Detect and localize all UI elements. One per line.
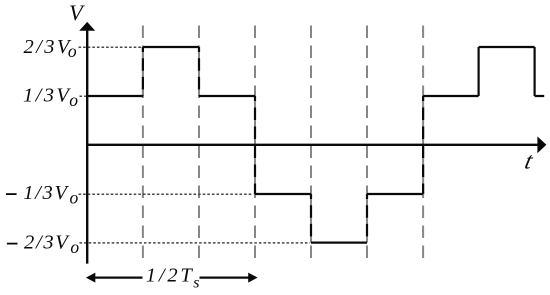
- svg-text:s: s: [193, 274, 199, 291]
- svg-text:2/3V: 2/3V: [24, 232, 70, 254]
- V axis arrowhead: [79, 22, 95, 31]
- dashed gridline 1: [142, 26, 144, 259]
- waveform edge x=311: [310, 194, 312, 243]
- dotted leader 2/3Vo: [79, 46, 143, 48]
- svg-text:1/3V: 1/3V: [23, 85, 71, 107]
- waveform edge x=478.6: [478, 47, 480, 96]
- svg-text:1/2T: 1/2T: [146, 265, 195, 287]
- waveform edge x=143: [142, 47, 144, 96]
- dashed gridline 3: [254, 26, 256, 259]
- 1/2Ts arrow left line: [94, 277, 143, 279]
- waveform edge x=199: [198, 47, 200, 96]
- svg-text:o: o: [70, 188, 79, 208]
- svg-text:2/3V: 2/3V: [24, 36, 72, 58]
- 1/2Ts right arrowhead: [248, 273, 257, 283]
- svg-text:o: o: [70, 237, 79, 257]
- dotted leader -2/3Vo: [80, 242, 311, 244]
- label -2/3Vo: [7, 243, 18, 245]
- waveform edge x=255: [254, 96, 256, 194]
- 1/2Ts arrow right line: [200, 277, 250, 279]
- 1/2Ts left arrowhead: [86, 273, 95, 283]
- waveform edge x=534.6: [533, 47, 535, 96]
- waveform edge x=367: [366, 194, 368, 243]
- dashed gridline 6: [422, 26, 424, 259]
- t axis: [86, 144, 539, 146]
- dashed gridline 5: [366, 26, 368, 259]
- svg-text:1/3V: 1/3V: [23, 182, 69, 204]
- svg-text:o: o: [68, 41, 77, 61]
- waveform level segments: [87, 47, 544, 243]
- waveform edge x=423: [422, 96, 424, 194]
- dotted leader -1/3Vo: [79, 193, 254, 195]
- dashed gridline 2: [198, 26, 200, 259]
- dotted leader 1/3Vo: [80, 95, 87, 97]
- svg-text:V: V: [69, 0, 85, 25]
- label -1/3Vo: [6, 193, 17, 195]
- t axis arrowhead: [537, 136, 546, 153]
- dashed gridline 4: [310, 26, 312, 259]
- V axis: [86, 30, 88, 264]
- svg-text:o: o: [69, 90, 78, 110]
